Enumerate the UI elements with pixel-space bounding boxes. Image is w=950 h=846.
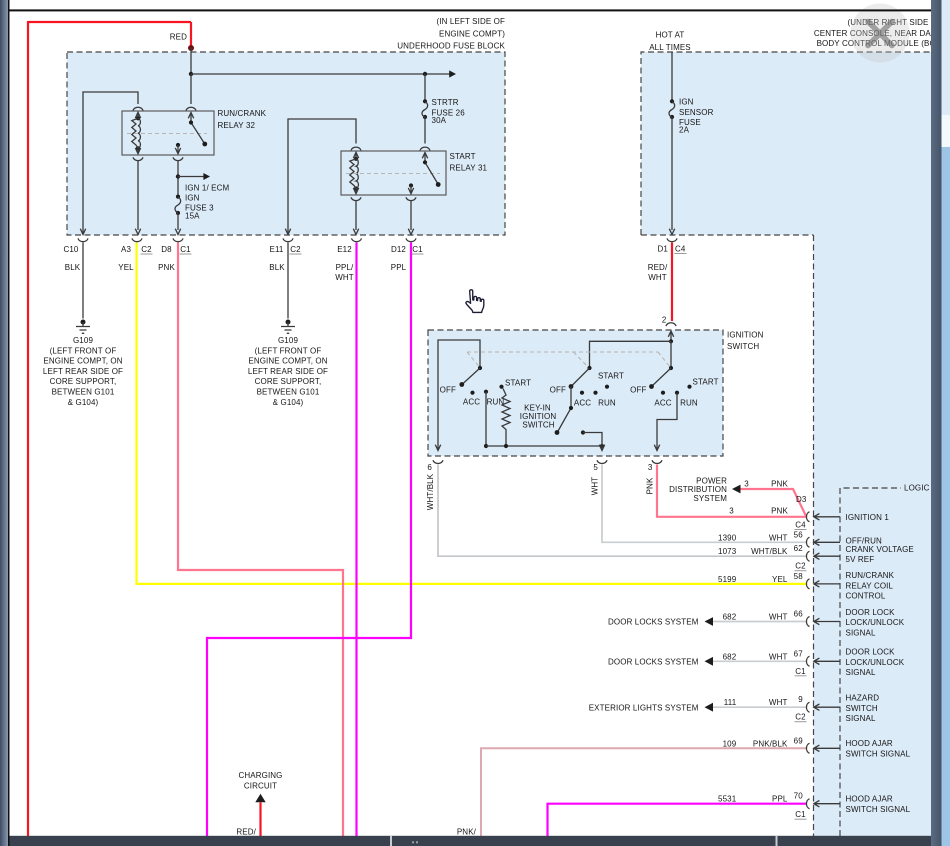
svg-text:30A: 30A — [432, 116, 447, 125]
svg-text:D8: D8 — [161, 245, 172, 254]
BCM PIN ROW: 56 OFF/RUN — [806, 537, 809, 547]
connector arc E11 — [283, 238, 293, 241]
svg-text:IGN: IGN — [185, 193, 200, 202]
svg-text:WHT: WHT — [769, 652, 788, 661]
svg-text:PNK: PNK — [771, 480, 788, 489]
svg-text:EXTERIOR LIGHTS SYSTEM: EXTERIOR LIGHTS SYSTEM — [589, 703, 699, 712]
svg-text:SIGNAL: SIGNAL — [846, 668, 876, 677]
underhood fuse block box — [67, 52, 505, 235]
svg-text:BLK: BLK — [65, 263, 81, 272]
wire bus to fuse 26 — [424, 74, 426, 101]
svg-text:DOOR LOCKS SYSTEM: DOOR LOCKS SYSTEM — [608, 618, 699, 627]
wire run A to bus — [485, 392, 487, 446]
linkage dashed — [467, 351, 658, 353]
switch B contacts — [580, 391, 584, 395]
svg-text:ENGINE COMPT, ON: ENGINE COMPT, ON — [43, 357, 122, 366]
wire fuse 26 to start relay — [424, 117, 426, 144]
node IGN1/ECM branch — [176, 174, 180, 178]
svg-text:IGN 1/ ECM: IGN 1/ ECM — [185, 184, 230, 193]
svg-text:A3: A3 — [121, 245, 131, 254]
node bus junction — [189, 72, 193, 76]
svg-text:111: 111 — [724, 698, 737, 707]
svg-text:RUN: RUN — [680, 399, 698, 408]
relay R32 box — [122, 111, 214, 155]
relay R31 box — [341, 151, 446, 195]
svg-text:ENGINE COMPT, ON: ENGINE COMPT, ON — [248, 357, 327, 366]
wire coil bottom to A3 — [135, 161, 140, 235]
connector arcs ignition bottom pins — [433, 460, 443, 463]
svg-text:C2: C2 — [290, 245, 301, 254]
svg-text:C10: C10 — [63, 245, 78, 254]
arrow down C10 at edge — [80, 229, 85, 235]
switch A pivot and blade — [478, 366, 482, 370]
right scroll track — [931, 0, 942, 846]
svg-text:C4: C4 — [795, 521, 806, 530]
svg-text:2: 2 — [662, 316, 667, 325]
svg-text:62: 62 — [794, 544, 804, 553]
node red junction at fuse block — [188, 45, 194, 51]
top frame line — [8, 9, 931, 11]
BCM PIN ROW: 62 CRANK VOLTAGE 5V REF — [806, 551, 809, 561]
svg-text:PNK: PNK — [771, 507, 788, 516]
arrow IGN 1/ECM branch — [178, 176, 207, 178]
BCM PIN ROW: 9 HAZARD — [713, 706, 807, 708]
wire BLK C10 to ground — [82, 243, 84, 319]
svg-text:DOOR LOCKS SYSTEM: DOOR LOCKS SYSTEM — [608, 657, 699, 666]
connector arc relay coil top — [133, 107, 143, 110]
connector arc A3 — [132, 238, 142, 241]
connector arc relay switch top — [186, 107, 196, 110]
relay R32 coil pin arrow up — [135, 112, 140, 118]
BCM upper box — [641, 52, 931, 235]
svg-text:& G104): & G104) — [273, 398, 304, 407]
connector arc C10 — [78, 238, 88, 241]
relay R31 coil pin arrow up — [353, 152, 358, 158]
svg-text:C1: C1 — [412, 245, 423, 254]
svg-text:IGNITION: IGNITION — [727, 331, 764, 340]
wire RED/WHT to ignition switch — [671, 243, 673, 322]
svg-text:3: 3 — [744, 480, 749, 489]
connector arc D12 — [406, 238, 416, 241]
svg-text:UNDERHOOD FUSE BLOCK: UNDERHOOD FUSE BLOCK — [397, 42, 505, 51]
svg-text:G109: G109 — [278, 336, 298, 345]
svg-text:ACC: ACC — [654, 399, 671, 408]
svg-text:E11: E11 — [269, 245, 283, 254]
svg-text:1390: 1390 — [718, 533, 737, 542]
svg-text:HOOD AJAR: HOOD AJAR — [846, 795, 893, 804]
svg-text:HAZARD: HAZARD — [846, 694, 880, 703]
relay R32 NO contact pin — [176, 143, 180, 147]
node feed junction — [669, 339, 673, 343]
wire RED drop into fuse block — [190, 22, 192, 47]
svg-text:LOCK/UNLOCK: LOCK/UNLOCK — [846, 618, 905, 627]
node bus to strtr fuse — [423, 72, 427, 76]
svg-text:ACC: ACC — [463, 398, 480, 407]
svg-text:C2: C2 — [795, 713, 806, 722]
wire start coil bottom to E12 — [353, 201, 358, 235]
svg-text:WHT: WHT — [769, 698, 788, 707]
fuse IGN SENSOR 2A — [670, 99, 674, 103]
wire fuse3 to D8 — [175, 213, 180, 235]
relay R31 coil — [354, 157, 358, 161]
svg-text:682: 682 — [723, 652, 737, 661]
svg-text:BETWEEN G101: BETWEEN G101 — [52, 388, 115, 397]
svg-text:3: 3 — [648, 463, 653, 472]
svg-text:ENGINE COMPT): ENGINE COMPT) — [439, 29, 505, 38]
svg-text:CRANK VOLTAGE: CRANK VOLTAGE — [846, 545, 914, 554]
switch B key-in blade — [558, 387, 572, 433]
svg-text:IGNITION 1: IGNITION 1 — [846, 513, 890, 522]
connector arc E12 — [352, 238, 362, 241]
svg-text:WHT: WHT — [335, 273, 354, 282]
wire coil feed from E11 branch — [288, 119, 356, 234]
svg-text:BLK: BLK — [269, 263, 285, 272]
BCM PIN ROW: 69 HOOD AJAR — [481, 748, 807, 836]
svg-text:D3: D3 — [796, 495, 807, 504]
BCM PIN ROW: IGNITION 1 — [806, 512, 809, 522]
relay R31 coil bottom arrow — [353, 188, 358, 194]
svg-text:SIGNAL: SIGNAL — [846, 714, 876, 723]
svg-text:56: 56 — [794, 530, 804, 539]
svg-text:15A: 15A — [185, 211, 200, 220]
resistor key-in — [502, 389, 510, 447]
BCM PIN ROW: 58 RUN/CRANK RELAY COIL CONTROL — [806, 579, 809, 589]
svg-text:C4: C4 — [675, 245, 686, 254]
svg-text:SWITCH: SWITCH — [727, 342, 759, 351]
svg-text:WHT: WHT — [769, 533, 788, 542]
watermark — [851, 4, 910, 63]
wire from red node to bus — [190, 48, 192, 74]
svg-text:109: 109 — [723, 739, 737, 748]
svg-text:RUN/CRANK: RUN/CRANK — [846, 571, 895, 580]
svg-text:E12: E12 — [337, 245, 352, 254]
svg-text:RUN: RUN — [598, 399, 616, 408]
svg-text:RELAY 32: RELAY 32 — [218, 121, 256, 130]
wire PPL/WHT E12 straight down — [355, 243, 357, 837]
wire WHT pin5 to BCM 56 — [602, 465, 807, 543]
right scrollbar — [942, 0, 950, 846]
BCM PIN ROW: 66 DOOR LOCK — [713, 621, 807, 623]
switch C pivot and blade — [669, 366, 673, 370]
svg-text:58: 58 — [794, 572, 804, 581]
wire switch pin down to relay — [190, 74, 192, 104]
left frame line — [8, 0, 10, 846]
switch A contacts — [470, 391, 474, 395]
connector arc start relay switch top — [420, 147, 430, 150]
svg-text:(LEFT FRONT OF: (LEFT FRONT OF — [50, 346, 117, 355]
svg-text:STRTR: STRTR — [432, 98, 459, 107]
wire PNK branch to power distribution — [739, 489, 806, 516]
wire RED feed left vertical to bottom — [27, 21, 29, 836]
wire bus to pin 5 arrow — [599, 445, 604, 451]
svg-text:OFF: OFF — [550, 386, 566, 395]
switch B pivot and blade — [587, 366, 591, 370]
wire pin2 into box with arrow — [668, 331, 673, 341]
ignition switch box — [428, 330, 723, 456]
svg-text:C1: C1 — [795, 667, 806, 676]
svg-text:PNK/BLK: PNK/BLK — [753, 739, 788, 748]
svg-text:RELAY COIL: RELAY COIL — [846, 581, 894, 590]
svg-text:(LEFT FRONT OF: (LEFT FRONT OF — [255, 346, 322, 355]
svg-text:OFF: OFF — [630, 386, 646, 395]
svg-text:BETWEEN G101: BETWEEN G101 — [257, 388, 320, 397]
relay R31 actuator dashed — [346, 173, 440, 175]
svg-text:CHARGING: CHARGING — [238, 771, 282, 780]
wire RED feed horizontal — [28, 21, 191, 23]
relay R32 switch arm — [191, 113, 205, 144]
wire PNK pin3 to BCM ignition 1 — [657, 465, 806, 517]
svg-text:1073: 1073 — [718, 547, 737, 556]
svg-text:IGN: IGN — [679, 98, 694, 107]
svg-text:OFF: OFF — [440, 386, 456, 395]
wire WHT/BLK pin6 to BCM 62 — [438, 465, 807, 557]
svg-text:CIRCUIT: CIRCUIT — [244, 781, 277, 790]
relay R31 switch arm — [425, 153, 438, 185]
wire start contact to D12 — [408, 201, 413, 235]
arrow bus right — [449, 70, 456, 77]
svg-text:START: START — [693, 378, 719, 387]
bus wire to pin 5 — [486, 445, 602, 447]
relay R32 coil — [136, 116, 140, 120]
wire hot at all times down — [671, 52, 673, 101]
svg-text:LOGIC: LOGIC — [904, 484, 930, 493]
svg-text:START: START — [505, 378, 531, 387]
svg-text:5531: 5531 — [718, 795, 737, 804]
svg-text:6: 6 — [427, 463, 432, 472]
svg-text:C2: C2 — [795, 562, 806, 571]
svg-text:69: 69 — [794, 736, 804, 745]
svg-text:C2: C2 — [141, 245, 152, 254]
svg-text:WHT: WHT — [591, 477, 600, 496]
svg-text:C1: C1 — [180, 245, 191, 254]
svg-text:67: 67 — [794, 649, 804, 658]
svg-text:RED/: RED/ — [236, 828, 256, 837]
BCM PIN ROW: 70 HOOD AJAR — [548, 804, 807, 836]
relay R32 coil bottom arrow — [135, 148, 140, 154]
svg-text:682: 682 — [723, 613, 737, 622]
svg-text:SWITCH: SWITCH — [846, 704, 878, 713]
arrow power distribution — [732, 485, 741, 494]
svg-text:LOCK/UNLOCK: LOCK/UNLOCK — [846, 658, 905, 667]
fuse F26 — [423, 99, 427, 103]
svg-text:YEL: YEL — [772, 575, 788, 584]
svg-text:SIGNAL: SIGNAL — [846, 628, 876, 637]
svg-text:(IN LEFT SIDE OF: (IN LEFT SIDE OF — [437, 17, 505, 26]
svg-text:DISTRIBUTION: DISTRIBUTION — [669, 485, 727, 494]
wire run C to pin 3 — [654, 393, 677, 451]
connector arc start relay coil top — [351, 147, 361, 150]
fuse F3 — [176, 195, 180, 199]
svg-text:ALL TIMES: ALL TIMES — [649, 43, 691, 52]
svg-text:SWITCH SIGNAL: SWITCH SIGNAL — [846, 805, 911, 814]
switch C contacts — [661, 391, 665, 395]
svg-text:YEL: YEL — [118, 263, 134, 272]
svg-text:HOT AT: HOT AT — [656, 31, 685, 40]
svg-text:SWITCH SIGNAL: SWITCH SIGNAL — [846, 750, 911, 759]
wire RED charging stub — [259, 802, 261, 836]
svg-text:2A: 2A — [679, 126, 690, 135]
svg-text:SWITCH: SWITCH — [522, 420, 554, 429]
svg-text:RUN/CRANK: RUN/CRANK — [218, 109, 267, 118]
svg-text:5V REF: 5V REF — [846, 555, 875, 564]
svg-text:WHT: WHT — [648, 273, 667, 282]
left sidebar — [0, 0, 8, 846]
connector arc D1 — [667, 238, 677, 241]
svg-text:RED: RED — [170, 33, 187, 42]
wire PNK D8 down-right-down to bottom — [178, 243, 343, 837]
relay R31 NO contact pin — [409, 183, 413, 187]
wire pin 6 to switch A pivot — [435, 340, 480, 451]
svg-text:& G104): & G104) — [68, 398, 99, 407]
svg-text:DOOR LOCK: DOOR LOCK — [846, 608, 896, 617]
svg-text:PNK: PNK — [158, 263, 175, 272]
connector arc below start relay contact — [406, 197, 416, 200]
wire BLK E11 to ground — [287, 243, 289, 319]
svg-text:PPL: PPL — [391, 263, 407, 272]
wire YEL A3 run to BCM pin 58 — [137, 243, 808, 584]
wire feed to switch B pivot — [590, 341, 672, 368]
svg-text:ACC: ACC — [574, 399, 591, 408]
wire contact pin down to fuse 3 — [177, 161, 179, 196]
svg-text:3: 3 — [729, 507, 734, 516]
wire coil feed from C10 branch — [83, 92, 138, 234]
svg-text:WHT/BLK: WHT/BLK — [751, 547, 788, 556]
svg-text:PNK/: PNK/ — [457, 828, 477, 837]
svg-text:CORE SUPPORT,: CORE SUPPORT, — [255, 377, 322, 386]
svg-text:LEFT REAR SIDE OF: LEFT REAR SIDE OF — [248, 367, 328, 376]
svg-text:START: START — [450, 152, 476, 161]
arrow down E11 at edge — [285, 229, 290, 235]
svg-text:DOOR LOCK: DOOR LOCK — [846, 648, 896, 657]
svg-text:CORE SUPPORT,: CORE SUPPORT, — [50, 377, 117, 386]
connector arc below relay contact — [173, 157, 183, 160]
svg-text:70: 70 — [794, 792, 804, 801]
svg-text:D12: D12 — [391, 245, 406, 254]
svg-text:WHT: WHT — [769, 613, 788, 622]
svg-text:SENSOR: SENSOR — [679, 108, 714, 117]
svg-text:PPL: PPL — [772, 795, 788, 804]
connector arc D8 — [173, 238, 183, 241]
svg-text:CONTROL: CONTROL — [846, 592, 886, 601]
wire fuse to D1 — [669, 117, 674, 235]
wire PPL D12 down-left-down to bottom — [207, 243, 411, 837]
svg-text:9: 9 — [798, 695, 803, 704]
svg-text:SYSTEM: SYSTEM — [693, 494, 727, 503]
wire feed down to switch C pivot — [670, 341, 672, 368]
arrow charging circuit — [255, 794, 265, 803]
svg-text:RED/: RED/ — [648, 263, 668, 272]
svg-text:PPL/: PPL/ — [336, 263, 354, 272]
bottom dark bar — [10, 836, 932, 846]
ground G109 left — [81, 320, 86, 325]
connector arc below relay coil — [133, 157, 143, 160]
svg-text:G109: G109 — [73, 336, 93, 345]
relay R32 actuator dashed — [127, 133, 207, 135]
svg-text:RELAY 31: RELAY 31 — [450, 164, 488, 173]
svg-text:LEFT REAR SIDE OF: LEFT REAR SIDE OF — [43, 367, 123, 376]
connector arc ignition pin 2 — [666, 323, 676, 326]
svg-text:HOOD AJAR: HOOD AJAR — [846, 739, 893, 748]
svg-text:5: 5 — [593, 463, 598, 472]
svg-text:D1: D1 — [658, 245, 669, 254]
svg-text:C1: C1 — [795, 810, 806, 819]
svg-text:START: START — [598, 371, 624, 380]
svg-text:WHT/BLK: WHT/BLK — [426, 473, 435, 510]
wire main bus horizontal — [191, 73, 454, 75]
switch B output contact — [581, 430, 585, 434]
svg-text:66: 66 — [794, 610, 804, 619]
BCM PIN ROW: 67 DOOR LOCK — [713, 660, 807, 662]
svg-text:5199: 5199 — [718, 575, 737, 584]
BCM right-side body — [814, 235, 932, 836]
hand cursor — [466, 290, 484, 313]
LOGIC box — [840, 488, 901, 836]
ground G109 right — [286, 320, 291, 325]
svg-text:PNK: PNK — [645, 477, 654, 494]
connector arc below start relay coil — [351, 197, 361, 200]
